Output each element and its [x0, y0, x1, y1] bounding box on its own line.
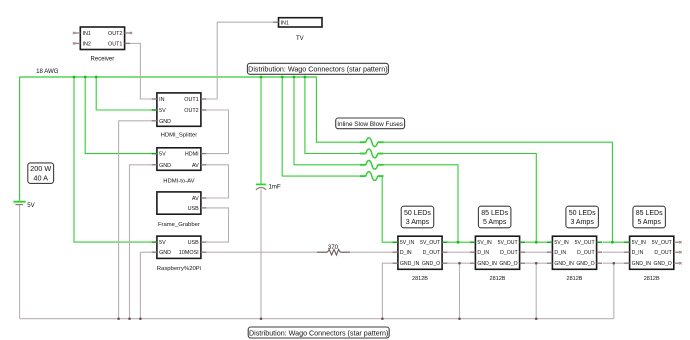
- svg-text:Receiver: Receiver: [91, 57, 115, 63]
- Raspberry Pi U5: [152, 236, 207, 272]
- wire F1 to strip4 5V: [384, 142, 613, 242]
- svg-text:Distribution: Wago Connectors: Distribution: Wago Connectors (star patt…: [248, 66, 387, 74]
- svg-text:D_IN: D_IN: [632, 250, 644, 256]
- svg-text:Raspberry%20Pi: Raspberry%20Pi: [157, 266, 201, 272]
- node GND bus junction (splitter): [117, 317, 120, 320]
- svg-text:10MOSI: 10MOSI: [179, 250, 199, 256]
- svg-text:2812B: 2812B: [644, 276, 660, 282]
- svg-text:85 LEDs: 85 LEDs: [636, 210, 663, 217]
- svg-text:50 LEDs: 50 LEDs: [404, 210, 431, 217]
- wire bus to fuse F3: [294, 77, 360, 165]
- wire Splitter OUT2 to HDMI-to-AV HDMI: [206, 110, 228, 154]
- svg-text:2812B: 2812B: [567, 276, 583, 282]
- svg-text:18 AWG: 18 AWG: [36, 68, 59, 75]
- frame grabber U4: [157, 192, 206, 228]
- svg-text:IN1: IN1: [83, 31, 91, 37]
- label box 50 LEDs 3 Amps (strip1): [401, 206, 434, 228]
- svg-text:5V_OUT: 5V_OUT: [498, 240, 519, 246]
- svg-text:5V: 5V: [27, 202, 35, 209]
- svg-text:IN2: IN2: [83, 41, 91, 47]
- wire GND drop strip3: [535, 263, 537, 319]
- svg-text:D_IN: D_IN: [554, 250, 566, 256]
- wire strip1 GND_IN to bus: [382, 263, 392, 319]
- node 5V junction strip4: [611, 241, 614, 244]
- node bus junction (F2): [304, 76, 307, 79]
- fuse F3 (slow blow): [360, 160, 384, 169]
- svg-text:370: 370: [328, 244, 339, 251]
- svg-text:AV: AV: [192, 196, 199, 202]
- svg-text:OUT1: OUT1: [184, 97, 198, 103]
- svg-text:GND_O: GND_O: [576, 261, 594, 267]
- node bus junction (splitter 5V): [95, 76, 98, 79]
- svg-text:1mF: 1mF: [269, 184, 281, 191]
- svg-text:GND_O: GND_O: [654, 261, 672, 267]
- svg-text:GND_O: GND_O: [499, 261, 517, 267]
- wire bus right riser to strip4 GND: [613, 263, 615, 319]
- wire bus to fuse F1: [316, 77, 360, 143]
- wire strip2 D_OUT to strip3 D_IN: [525, 251, 548, 253]
- svg-text:Distribution: Wago Connectors: Distribution: Wago Connectors (star patt…: [249, 329, 388, 337]
- wire F3 to strip2 5V: [384, 165, 459, 242]
- wire RPi GND to bus: [140, 252, 151, 319]
- svg-text:GND_IN: GND_IN: [554, 261, 574, 267]
- svg-text:GND_IN: GND_IN: [400, 261, 420, 267]
- node GND bus junction (cap): [260, 317, 263, 320]
- wire 5V to capacitor: [260, 77, 262, 184]
- LED strip module 2812B (strip4): [624, 236, 681, 282]
- svg-text:GND_IN: GND_IN: [477, 261, 497, 267]
- svg-text:5V_OUT: 5V_OUT: [420, 240, 441, 246]
- fuse F4 (slow blow): [360, 172, 384, 181]
- svg-text:3 Amps: 3 Amps: [570, 219, 594, 226]
- svg-text:5V_IN: 5V_IN: [632, 240, 647, 246]
- svg-text:5V_IN: 5V_IN: [554, 240, 569, 246]
- wire GND distribution bus (bottom): [20, 318, 614, 320]
- node bus junction (AV 5V): [84, 76, 87, 79]
- wire bus to fuse F2: [305, 77, 360, 154]
- svg-text:5V: 5V: [159, 152, 166, 158]
- wire bus to fuse F4: [282, 77, 360, 176]
- svg-text:TV: TV: [296, 36, 304, 42]
- node GND bus junction (strip1): [381, 317, 384, 320]
- wire F4 to strip1 5V_IN: [382, 176, 392, 242]
- label box Distribution: Wago Connectors (star pattern) [top]: [247, 63, 388, 74]
- node GND bus junction (av): [128, 317, 131, 320]
- wire RPi 10MOSI to resistor: [206, 251, 317, 253]
- wire battery - down: [19, 205, 21, 319]
- wire strip1 D_OUT to strip2 D_IN: [448, 251, 471, 253]
- svg-text:D_IN: D_IN: [477, 250, 489, 256]
- svg-text:USB: USB: [188, 240, 199, 246]
- svg-text:D_IN: D_IN: [400, 250, 412, 256]
- node 5V junction strip2: [457, 241, 460, 244]
- svg-text:5V_OUT: 5V_OUT: [652, 240, 673, 246]
- node GND bus junction (strip2): [458, 317, 461, 320]
- wire Frame_Grabber USB to Raspberry Pi USB: [206, 208, 228, 242]
- node bus junction (F3): [293, 76, 296, 79]
- fuse F1 (slow blow): [360, 138, 384, 147]
- fuse F2 (slow blow): [360, 149, 384, 158]
- HDMI splitter U2: [152, 93, 207, 139]
- svg-text:GND: GND: [159, 250, 171, 256]
- resistor R1 370 ohm: [317, 251, 328, 253]
- wire strip2 GND_O to strip3 GND_IN: [525, 262, 548, 264]
- svg-text:OUT2: OUT2: [108, 31, 122, 37]
- node GND junction strip2: [458, 262, 461, 265]
- svg-text:Frame_Grabber: Frame_Grabber: [158, 222, 200, 228]
- LED strip module 2812B (strip3): [547, 236, 602, 282]
- TV: [273, 18, 322, 43]
- wire HDMI-to-AV AV to Frame_Grabber AV: [206, 165, 228, 198]
- wire strip2 5V_OUT to strip3 5V_IN: [525, 241, 548, 243]
- svg-text:USB: USB: [188, 206, 199, 212]
- LED strip module 2812B (strip2): [470, 236, 525, 282]
- capacitor C1 1mF (polarized): [256, 184, 266, 189]
- svg-text:85 LEDs: 85 LEDs: [481, 210, 508, 217]
- svg-text:IN1: IN1: [281, 20, 289, 26]
- svg-text:OUT1: OUT1: [108, 41, 122, 47]
- label box Inline Slow Blow Fuses: [336, 118, 405, 129]
- svg-text:5V: 5V: [159, 108, 166, 114]
- label box 85 LEDs 5 Amps (strip2): [478, 206, 511, 228]
- svg-text:3 Amps: 3 Amps: [406, 219, 430, 226]
- svg-text:GND_IN: GND_IN: [632, 261, 652, 267]
- wire strip3 GND_O to strip4 GND_IN: [603, 262, 626, 264]
- svg-text:Inline Slow Blow Fuses: Inline Slow Blow Fuses: [337, 121, 403, 128]
- svg-text:2812B: 2812B: [412, 276, 428, 282]
- svg-text:D_OUT: D_OUT: [423, 250, 441, 256]
- wire strip1 GND_O to strip2 GND_IN: [448, 262, 471, 264]
- wire 5V to HDMI_Splitter: [96, 77, 152, 110]
- label box 200 W 40 A: [28, 163, 54, 184]
- wire 5V to HDMI-to-AV: [85, 77, 152, 154]
- svg-text:5V: 5V: [159, 240, 166, 246]
- wire capacitor - to bus: [260, 189, 262, 319]
- svg-text:GND: GND: [159, 163, 171, 169]
- wire strip3 5V_OUT to strip4 5V_IN: [603, 241, 626, 243]
- svg-text:5V_IN: 5V_IN: [477, 240, 492, 246]
- node bus junction (F4): [281, 76, 284, 79]
- svg-text:2812B: 2812B: [490, 276, 506, 282]
- wire Receiver OUT1 to Splitter IN: [130, 43, 152, 99]
- receiver U1: [73, 27, 132, 63]
- svg-text:GND: GND: [159, 119, 171, 125]
- label box 50 LEDs 3 Amps (strip3): [566, 206, 599, 228]
- node 5V junction strip3: [535, 241, 538, 244]
- node bus junction (RPi 5V): [73, 76, 76, 79]
- svg-text:AV: AV: [192, 163, 199, 169]
- svg-text:OUT2: OUT2: [184, 108, 198, 114]
- svg-text:D_OUT: D_OUT: [500, 250, 518, 256]
- label box 85 LEDs 5 Amps (strip4): [633, 206, 666, 228]
- HDMI-to-AV converter U3: [152, 148, 207, 185]
- wire 5V distribution bus (top): [20, 76, 317, 78]
- wire F2 to strip3 5V: [384, 154, 537, 243]
- svg-text:IN: IN: [159, 97, 164, 103]
- svg-text:GND_O: GND_O: [422, 261, 440, 267]
- wire strip1 5V_OUT to strip2 5V_IN: [448, 241, 471, 243]
- battery V1 200W 40A 5V supply: [13, 202, 25, 205]
- svg-text:50 LEDs: 50 LEDs: [569, 210, 596, 217]
- svg-text:5V_OUT: 5V_OUT: [575, 240, 596, 246]
- svg-text:D_OUT: D_OUT: [577, 250, 595, 256]
- node bus junction (capacitor): [260, 76, 263, 79]
- wire resistor to strip1 D_IN: [350, 251, 393, 253]
- wire 5V to Raspberry Pi: [74, 77, 152, 242]
- node GND bus junction (strip3): [535, 317, 538, 320]
- svg-text:HDMI: HDMI: [185, 152, 199, 158]
- wire Splitter GND to bus: [119, 121, 152, 319]
- svg-text:5 Amps: 5 Amps: [483, 219, 507, 226]
- wire GND drop strip2: [459, 263, 461, 319]
- node GND junction strip3: [535, 262, 538, 265]
- wire Splitter OUT1 to TV IN1: [206, 22, 273, 99]
- LED strip module 2812B (strip1): [393, 236, 448, 282]
- svg-text:D_OUT: D_OUT: [654, 250, 672, 256]
- wire HDMI-to-AV GND to bus: [130, 165, 152, 319]
- wire battery + to bus: [19, 76, 21, 200]
- node GND bus junction (rpi): [139, 317, 142, 320]
- svg-text:200 W: 200 W: [30, 164, 51, 173]
- wire strip3 D_OUT to strip4 D_IN: [603, 251, 626, 253]
- svg-text:HDMI-to-AV: HDMI-to-AV: [163, 179, 194, 185]
- svg-text:HDMI_Splitter: HDMI_Splitter: [161, 133, 198, 139]
- svg-text:40 A: 40 A: [33, 174, 48, 183]
- svg-text:5 Amps: 5 Amps: [637, 219, 661, 226]
- label box Distribution: Wago Connectors (star pattern) [bottom]: [248, 327, 389, 338]
- node GND junction strip4: [613, 262, 616, 265]
- svg-text:5V_IN: 5V_IN: [400, 240, 415, 246]
